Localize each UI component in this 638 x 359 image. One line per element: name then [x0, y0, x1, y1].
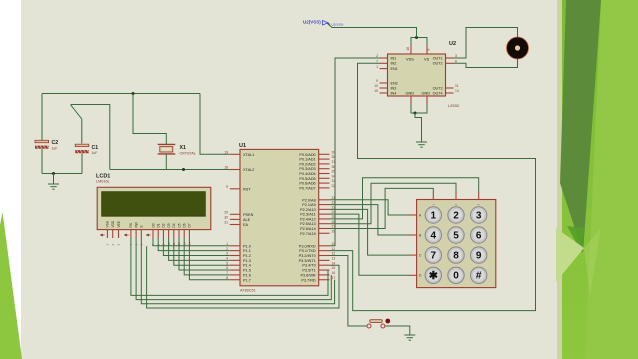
svg-text:8: 8 [427, 49, 431, 51]
svg-text:XTAL2: XTAL2 [243, 168, 254, 172]
svg-text:IN3: IN3 [391, 86, 397, 90]
svg-text:P0.1/AD1: P0.1/AD1 [299, 158, 315, 162]
svg-text:P2.6/A14: P2.6/A14 [300, 227, 316, 231]
svg-text:29: 29 [224, 210, 228, 214]
svg-text:CRYSTAL: CRYSTAL [180, 152, 196, 156]
svg-text:RS: RS [129, 223, 133, 227]
wire U2 IN1 to U1 P3.0 [330, 58, 380, 246]
svg-text:OUT4: OUT4 [433, 91, 443, 95]
wire top net C2-XTAL1 horizontal [42, 93, 200, 95]
svg-text:2: 2 [453, 210, 459, 221]
svg-text:17: 17 [332, 276, 336, 280]
junction top net [132, 92, 135, 95]
svg-text:P2.3/A11: P2.3/A11 [300, 213, 315, 217]
LCD power pin arrows [101, 234, 151, 236]
svg-text:EA: EA [243, 223, 249, 227]
svg-text:D4: D4 [172, 223, 176, 227]
keypad left pin stubs [410, 215, 417, 275]
svg-text:D2: D2 [162, 223, 166, 227]
driver U2 body [388, 54, 446, 96]
svg-text:9: 9 [476, 251, 482, 262]
svg-text:15: 15 [332, 266, 336, 270]
wire XTAL2 net horizontal [110, 169, 230, 171]
keypad column labels [431, 204, 480, 206]
svg-text:VSS: VSS [406, 57, 414, 62]
wire net to U1 P3.4 [147, 246, 339, 308]
wire C1 bottom vertical [81, 153, 83, 173]
svg-text:1: 1 [226, 242, 228, 246]
wire crystal bottom [165, 155, 167, 170]
svg-text:D6: D6 [183, 223, 187, 227]
svg-text:18: 18 [224, 166, 228, 170]
svg-text:P0.3/AD3: P0.3/AD3 [299, 167, 315, 171]
svg-text:GND: GND [406, 91, 415, 96]
svg-text:✱: ✱ [429, 270, 438, 282]
right panel mid triangle [584, 228, 601, 295]
U2 left pins [380, 58, 388, 93]
right panel saturated tip [567, 226, 584, 253]
svg-text:P3.4/T0: P3.4/T0 [302, 264, 315, 268]
svg-text:P3.6/WR: P3.6/WR [300, 273, 315, 277]
svg-text:P0.5/AD5: P0.5/AD5 [299, 177, 315, 181]
svg-text:P1.1: P1.1 [243, 249, 251, 253]
ground button [404, 335, 415, 340]
svg-text:D7: D7 [188, 223, 192, 227]
svg-text:P2.4/A12: P2.4/A12 [300, 217, 316, 221]
svg-text:11: 11 [455, 84, 459, 88]
wire LCD D7 to U1 P1.7 [189, 238, 229, 280]
LCD pin numbers rotated [106, 242, 192, 246]
svg-text:IN2: IN2 [391, 62, 397, 66]
svg-text:VSS: VSS [106, 221, 110, 227]
wire to ground [53, 174, 55, 185]
right panel lighter region [585, 0, 638, 359]
svg-text:P1.5: P1.5 [243, 269, 251, 273]
capacitor C2 [35, 140, 49, 148]
svg-text:P1.0: P1.0 [243, 244, 251, 248]
svg-text:P0.7/AD7: P0.7/AD7 [299, 186, 315, 190]
svg-text:P0.0/AD0: P0.0/AD0 [299, 153, 315, 157]
wire keypad column to U1 P2.5 [330, 183, 457, 223]
svg-text:VDD: VDD [111, 220, 115, 227]
wire LCD RS to U1 P3.5 [131, 238, 328, 295]
ground U2 [416, 142, 427, 147]
svg-text:P0.2/AD2: P0.2/AD2 [299, 162, 315, 166]
svg-text:#: # [476, 271, 482, 282]
wire LCD RW to U1 P3.6 [136, 238, 331, 300]
svg-text:P1.2: P1.2 [243, 254, 251, 258]
svg-text:PSEN: PSEN [243, 213, 254, 217]
push button [367, 319, 390, 328]
wire button to ground [385, 326, 410, 335]
U2 top pins VSS VS [411, 46, 427, 54]
keypad buttons [425, 207, 487, 284]
svg-text:EN2: EN2 [391, 81, 398, 85]
svg-text:P2.5/A13: P2.5/A13 [300, 222, 316, 226]
wire C2 bottom vertical [41, 149, 43, 174]
U1 right pin numbers and names [299, 150, 336, 282]
svg-text:P3.7/RD: P3.7/RD [301, 278, 316, 282]
motor M1 [507, 37, 529, 59]
junction cap ground [52, 172, 55, 175]
svg-text:15: 15 [374, 89, 378, 93]
svg-text:IN4: IN4 [391, 91, 397, 95]
svg-text:1uF: 1uF [92, 151, 98, 155]
svg-text:P3.0/RXD: P3.0/RXD [299, 244, 316, 248]
svg-text:ALE: ALE [243, 218, 251, 222]
wire cap ground bus [42, 173, 82, 175]
keypad row labels [419, 213, 422, 277]
svg-text:16: 16 [406, 47, 410, 51]
svg-text:14: 14 [455, 89, 459, 93]
capacitor C1 [75, 144, 89, 153]
svg-text:5: 5 [453, 230, 459, 241]
svg-text:X1: X1 [180, 145, 186, 151]
svg-text:D0: D0 [151, 223, 155, 227]
LCD pin names rotated [106, 220, 192, 227]
net label flag [323, 21, 331, 26]
wire keypad row B to U1 P2.1 [330, 205, 410, 235]
svg-text:7: 7 [431, 251, 437, 262]
crystal X1 [158, 144, 176, 154]
svg-text:1uF: 1uF [52, 146, 58, 150]
U1 left pin numbers and names [224, 150, 254, 282]
svg-text:IN1: IN1 [391, 56, 397, 60]
svg-text:19: 19 [224, 150, 228, 154]
svg-text:U2: U2 [449, 41, 456, 47]
svg-text:P1.6: P1.6 [243, 273, 251, 277]
svg-text:OUT1: OUT1 [433, 56, 443, 60]
ground capacitors [48, 184, 59, 189]
svg-text:31: 31 [224, 221, 228, 225]
wire C2 top vertical [41, 94, 43, 141]
lcd screen [102, 192, 206, 217]
svg-text:LM016L: LM016L [96, 180, 110, 184]
junction U2 ground [414, 112, 417, 115]
svg-text:D5: D5 [177, 223, 181, 227]
U2 bottom pins GND GND [411, 96, 427, 104]
svg-text:RW: RW [134, 222, 138, 227]
wire keypad row A to U1 P2.0 [330, 200, 410, 215]
svg-text:VS: VS [424, 57, 430, 62]
right panel pale triangle [556, 228, 584, 282]
wire LCD D3 to U1 P1.3 [169, 238, 230, 260]
wire U2 to ground symbol [415, 113, 422, 142]
svg-text:P1.3: P1.3 [243, 259, 251, 263]
svg-text:1: 1 [376, 65, 378, 69]
svg-text:P2.0/A8: P2.0/A8 [302, 198, 316, 202]
wire U2 IN2 to U1 P3.1 [330, 63, 536, 310]
wire LCD D0 to U1 P1.0 [153, 238, 230, 246]
svg-text:AT89C51: AT89C51 [240, 289, 256, 293]
svg-text:E: E [140, 225, 144, 227]
svg-text:8: 8 [453, 251, 459, 262]
svg-text:P3.3/INT1: P3.3/INT1 [299, 259, 316, 263]
wire motor loop OUT1-OUT2 [454, 28, 518, 68]
svg-text:VEE: VEE [117, 221, 121, 227]
svg-text:16: 16 [332, 271, 336, 275]
wire LCD D1 to U1 P1.1 [158, 238, 230, 251]
svg-text:9: 9 [376, 79, 378, 83]
svg-text:P3.1/TXD: P3.1/TXD [299, 249, 316, 253]
lcd LCD1 body [97, 187, 211, 229]
right panel dark triangle [560, 0, 601, 253]
U1 right pins stubs [319, 154, 330, 279]
svg-text:1: 1 [431, 210, 437, 221]
wire LCD D6 to U1 P1.6 [184, 238, 230, 275]
svg-text:OUT2: OUT2 [433, 62, 443, 66]
svg-text:U1: U1 [239, 143, 246, 149]
svg-text:P3.5/T1: P3.5/T1 [302, 269, 315, 273]
right decoration pale strip [557, 0, 562, 359]
svg-text:C1: C1 [92, 145, 99, 151]
svg-text:RST: RST [243, 187, 251, 191]
wire C1 top riser [71, 105, 82, 144]
svg-text:P3.2/INT0: P3.2/INT0 [299, 254, 316, 258]
U1 left pins stubs [230, 154, 240, 279]
svg-text:U2(VSS): U2(VSS) [303, 20, 321, 25]
U2 right pins [446, 58, 454, 93]
svg-text:D1: D1 [157, 223, 161, 227]
svg-text:U2(VSS): U2(VSS) [332, 23, 344, 27]
keypad body [417, 200, 496, 288]
svg-text:GND: GND [422, 91, 431, 96]
svg-text:P1.4: P1.4 [243, 264, 251, 268]
svg-text:P2.2/A10: P2.2/A10 [300, 208, 316, 212]
svg-text:0: 0 [453, 271, 459, 282]
svg-text:P2.7/A15: P2.7/A15 [300, 232, 316, 236]
keypad top pin stubs [433, 192, 478, 200]
wire U2 VSS-VS tie [411, 38, 427, 47]
svg-text:6: 6 [476, 230, 482, 241]
svg-text:P1.7: P1.7 [243, 278, 251, 282]
wire LCD D2 to U1 P1.2 [163, 238, 229, 256]
svg-text:P2.1/A9: P2.1/A9 [302, 203, 316, 207]
wire U2 supply to label [327, 23, 417, 38]
wire keypad column to U1 P2.6 [330, 188, 434, 228]
wire C1 net to XTAL2 [71, 105, 110, 170]
wire keypad row D to U1 P2.3 [330, 214, 410, 275]
svg-text:C2: C2 [52, 140, 59, 146]
svg-text:10: 10 [374, 84, 378, 88]
left bottom green wedge decoration [0, 212, 22, 359]
svg-text:9: 9 [226, 185, 228, 189]
svg-text:D3: D3 [167, 223, 171, 227]
svg-text:EN1: EN1 [391, 67, 398, 71]
svg-text:14: 14 [332, 261, 336, 265]
svg-text:L293D: L293D [448, 104, 459, 108]
junction U2 supply [415, 36, 418, 39]
wire U2 GND tie [411, 104, 427, 113]
wire LCD E to U1 P3.7 [141, 238, 334, 304]
svg-text:3: 3 [476, 210, 482, 221]
svg-text:13: 13 [332, 256, 336, 260]
svg-text:P0.4/AD4: P0.4/AD4 [299, 172, 315, 176]
wire keypad row C to U1 P2.2 [330, 209, 410, 255]
svg-text:5: 5 [226, 261, 228, 265]
junction XTAL2 net [182, 168, 185, 171]
svg-text:P0.6/AD6: P0.6/AD6 [299, 182, 315, 186]
svg-text:30: 30 [224, 216, 228, 220]
wire keypad column to U1 P2.4 [330, 178, 479, 219]
mcu U1 body [240, 149, 319, 285]
wire LCD D5 to U1 P1.5 [179, 238, 230, 270]
wire to XTAL1 pin [200, 94, 230, 155]
wire LCD D4 to U1 P1.4 [174, 238, 230, 265]
svg-text:XTAL1: XTAL1 [243, 153, 254, 157]
svg-text:4: 4 [431, 230, 437, 241]
wire U1 P3.2 to button [330, 256, 367, 327]
wire branch to crystal top [133, 94, 166, 145]
svg-text:OUT3: OUT3 [433, 86, 443, 90]
LCD pin stubs [107, 230, 189, 238]
